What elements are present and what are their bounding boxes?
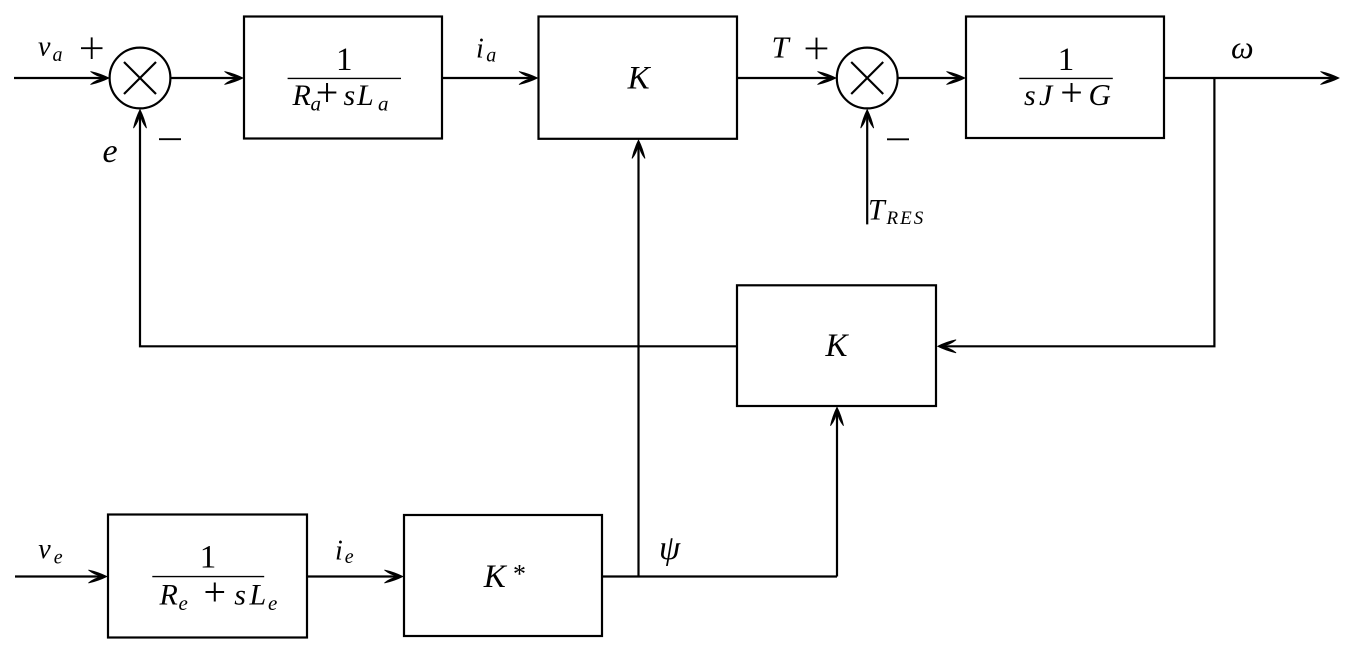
plus sign at S2 <box>806 38 828 60</box>
wire T_RES input <box>861 110 874 225</box>
wire S1 to block Ra <box>170 72 243 85</box>
summing junction S1 <box>110 48 171 109</box>
svg-text:e: e <box>179 591 188 615</box>
block K1 <box>539 17 738 139</box>
svg-text:RES: RES <box>886 208 926 229</box>
svg-text:i: i <box>476 34 484 65</box>
wire T: block K1 to S2 <box>737 72 836 85</box>
label ie <box>335 535 354 568</box>
block 1/(sJ+G) <box>966 17 1164 139</box>
svg-text:L: L <box>356 79 374 112</box>
wire S2 to block sJ+G <box>898 72 965 85</box>
svg-text:v: v <box>38 534 51 565</box>
label T_RES <box>868 194 925 230</box>
block 1/(Re+sLe) <box>108 515 307 638</box>
denominator Re+sLe <box>159 569 278 615</box>
svg-text:K: K <box>824 328 849 364</box>
svg-text:a: a <box>486 45 496 67</box>
svg-text:e: e <box>54 547 63 569</box>
svg-text:+: + <box>204 569 227 614</box>
minus sign at S1 <box>159 138 181 140</box>
wire omega branch down to K2 <box>938 78 1215 353</box>
block 1/(Ra+sLa) <box>244 17 442 139</box>
svg-text:i: i <box>335 535 343 566</box>
svg-text:K: K <box>627 61 652 97</box>
svg-text:T: T <box>868 194 887 227</box>
wire psi horizontal <box>602 575 837 577</box>
plus sign at S1 <box>81 37 103 59</box>
svg-text:v: v <box>38 32 51 63</box>
fraction bar block sJ+G <box>1019 77 1113 79</box>
label ve <box>38 534 63 569</box>
svg-text:R: R <box>159 579 178 612</box>
fraction bar block Ra <box>288 77 401 79</box>
wire ie: block Re to block Kstar <box>307 570 403 583</box>
svg-text:J: J <box>1039 79 1054 112</box>
svg-text:ψ: ψ <box>659 530 681 567</box>
svg-text:*: * <box>512 559 525 588</box>
minus sign at S2 <box>887 138 909 140</box>
wire e: K2 output to S1 <box>134 110 738 347</box>
wire input ve <box>15 570 107 583</box>
label Kstar <box>483 559 525 595</box>
svg-text:T: T <box>772 30 792 65</box>
block Kstar <box>404 515 602 636</box>
svg-text:a: a <box>378 92 389 116</box>
label va <box>38 32 63 67</box>
wire psi up to K1 <box>632 140 645 577</box>
label ia <box>476 34 496 67</box>
fraction bar block Re <box>152 576 264 578</box>
svg-text:G: G <box>1089 77 1111 112</box>
wire psi up to K2 <box>831 407 844 576</box>
denominator Ra+sLa <box>292 70 389 116</box>
svg-text:L: L <box>249 579 267 612</box>
svg-text:s: s <box>234 579 246 612</box>
svg-text:e: e <box>103 133 118 170</box>
svg-text:K: K <box>483 559 508 595</box>
svg-text:a: a <box>53 44 63 66</box>
svg-text:e: e <box>345 546 354 568</box>
svg-text:s: s <box>1024 79 1036 112</box>
svg-text:1: 1 <box>336 42 353 78</box>
svg-text:+: + <box>316 70 339 115</box>
svg-text:s: s <box>344 79 356 112</box>
svg-text:e: e <box>268 591 277 615</box>
denominator sJ+G <box>1024 70 1111 115</box>
svg-text:ω: ω <box>1231 29 1254 65</box>
wire input va <box>14 72 109 85</box>
wire ia: block Ra to block K1 <box>442 72 538 85</box>
wire omega output <box>1164 72 1339 85</box>
svg-text:R: R <box>292 79 311 112</box>
summing junction S2 <box>837 48 898 109</box>
block K2 feedback <box>737 285 936 406</box>
svg-text:+: + <box>1060 70 1083 115</box>
